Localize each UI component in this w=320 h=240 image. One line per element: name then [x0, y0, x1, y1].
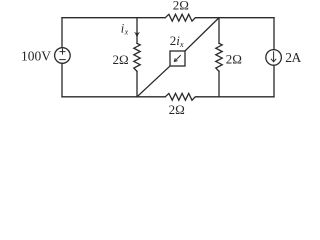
wire bottom-left segment: [62, 96, 165, 98]
wire right side upper: [273, 18, 275, 50]
wire top-right segment: [197, 17, 274, 19]
wire middle-right branch lower: [218, 71, 220, 97]
svg-text:ix: ix: [121, 21, 129, 36]
svg-text:2Ω: 2Ω: [113, 52, 129, 67]
arrow of current ix: [134, 32, 141, 39]
resistor 2Ω middle-right: [216, 43, 222, 71]
wire middle-right branch: [218, 18, 220, 44]
wire middle-left branch lower: [136, 71, 138, 97]
dependent source 2ix box: [170, 51, 185, 66]
plus sign of voltage source: [60, 49, 65, 54]
wire bottom-right segment: [197, 96, 274, 98]
svg-text:2Ω: 2Ω: [226, 51, 242, 66]
current source 2A: [266, 50, 282, 66]
wire left side lower: [61, 64, 63, 97]
wire diagonal lower: [137, 66, 170, 97]
wire middle-left branch: [136, 18, 138, 44]
wire top-left segment: [62, 17, 165, 19]
svg-text:2A: 2A: [285, 50, 301, 65]
svg-text:2Ω: 2Ω: [173, 0, 189, 12]
voltage source 100V: [55, 48, 71, 64]
wire diagonal upper: [185, 18, 219, 51]
arrow inside dependent source box: [174, 55, 180, 61]
svg-text:2Ω: 2Ω: [169, 102, 185, 117]
svg-text:100V: 100V: [21, 49, 51, 64]
resistor 2Ω middle-left: [134, 43, 140, 71]
minus sign of voltage source: [60, 59, 66, 61]
resistor 2Ω bottom: [165, 93, 197, 100]
svg-text:2ix: 2ix: [170, 33, 184, 49]
wire left side upper: [61, 18, 63, 48]
wire right side lower: [273, 65, 275, 97]
resistor 2Ω top: [165, 14, 197, 21]
